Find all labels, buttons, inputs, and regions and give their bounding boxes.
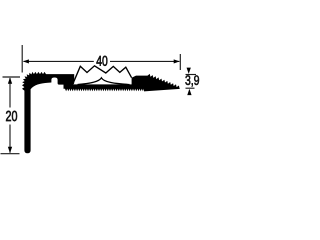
dimension 40 left arrowhead <box>23 59 29 63</box>
profile tread with serrated nose and vertical leg <box>22 72 74 153</box>
insert arc line <box>78 78 130 85</box>
dimension 40 line left part <box>24 60 94 62</box>
dimension 20 top arrowhead <box>8 77 12 83</box>
dimension 40 extension line right <box>179 54 181 70</box>
dimension 20 extension line top <box>3 76 21 78</box>
label 40 <box>96 56 101 66</box>
dimension 20 bottom arrowhead <box>8 147 12 153</box>
label 3,9 <box>185 75 190 85</box>
dimension 3,9 arrowhead pointing up <box>187 89 191 95</box>
dimension 40 right arrowhead <box>174 59 180 63</box>
dimension 3,9 bottom extension line <box>186 87 195 89</box>
dimension 20 line upper part <box>9 78 11 108</box>
channel floor and right serrated bevel <box>64 74 180 92</box>
dimension 3,9 arrowhead pointing down <box>187 68 191 74</box>
dimension 40 line right part <box>110 60 179 62</box>
dimension 3,9 top extension line <box>186 74 197 76</box>
anti-slip insert zigzag outline <box>74 66 132 83</box>
dimension 20 line lower part <box>9 125 11 153</box>
dimension 40 extension line left <box>21 45 23 73</box>
dimension 20 extension line bottom <box>1 153 20 155</box>
label 20 <box>6 111 11 121</box>
